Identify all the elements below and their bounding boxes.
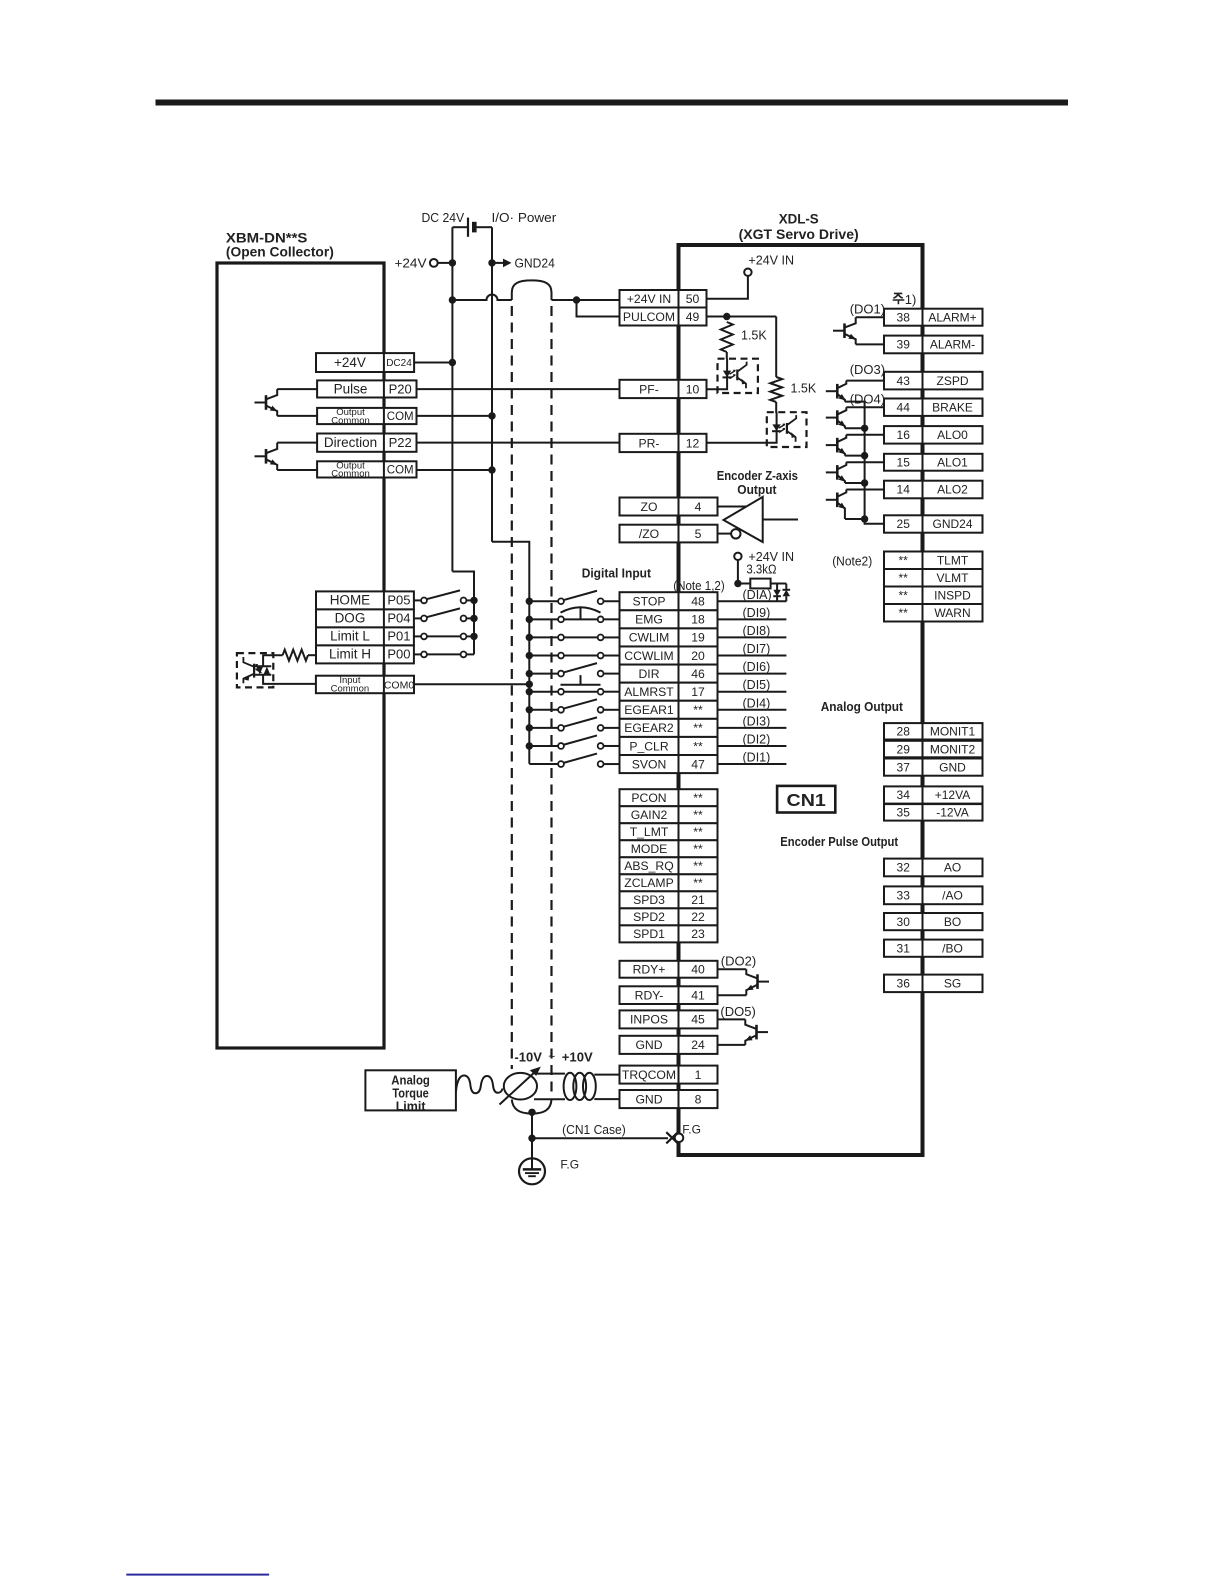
svg-text:-10V: -10V: [514, 1050, 542, 1065]
svg-text:SPD3: SPD3: [633, 893, 665, 907]
switch S1 input HOME: [414, 590, 474, 603]
terminal box Input Common / COM0: [316, 675, 414, 694]
svg-text:36: 36: [897, 977, 911, 991]
terminal box pin ** / TLMT: [884, 552, 983, 570]
svg-text:**: **: [899, 588, 909, 602]
wire resistor to Limit H: [308, 654, 316, 656]
svg-text:VLMT: VLMT: [936, 571, 969, 585]
node junction shield to FG: [528, 1109, 535, 1116]
svg-text:ALARM-: ALARM-: [930, 338, 975, 352]
node junction digital switch bus: [526, 598, 533, 605]
svg-text:3.3kΩ: 3.3kΩ: [746, 563, 776, 577]
svg-text:18: 18: [691, 613, 705, 627]
svg-text:(DI1): (DI1): [743, 751, 771, 765]
node junction +24V on battery left rail: [449, 259, 456, 266]
svg-text:INPOS: INPOS: [630, 1013, 668, 1027]
node junction emitter bus: [861, 479, 868, 486]
wire digital input stub (DI7): [718, 655, 787, 657]
svg-text:12: 12: [686, 436, 700, 450]
wire digital input stub (DIA): [718, 600, 787, 602]
svg-text:-12VA: -12VA: [936, 806, 968, 820]
svg-text:(DO3): (DO3): [850, 362, 885, 377]
svg-text:MONIT2: MONIT2: [930, 742, 976, 756]
svg-text:47: 47: [691, 757, 705, 771]
svg-text:**: **: [899, 571, 909, 585]
twisted pair loops: [564, 1073, 596, 1100]
svg-text:+24V IN: +24V IN: [627, 292, 671, 306]
svg-text:(DI5): (DI5): [743, 678, 771, 692]
svg-text:CCWLIM: CCWLIM: [624, 649, 673, 663]
svg-text:(DO2): (DO2): [721, 954, 756, 969]
transistor Q1 pulse output: [255, 389, 278, 416]
wire RDY- to DO2 emitter: [718, 994, 747, 996]
wire pulse transistor emitter to COM: [277, 415, 317, 417]
node junction digital switch bus: [526, 742, 533, 749]
node junction COM upper: [488, 412, 495, 419]
wire +24V IN to R4: [737, 560, 739, 584]
transistor Q2 direction output: [255, 443, 278, 470]
svg-text:SG: SG: [944, 977, 961, 991]
svg-text:37: 37: [897, 760, 911, 774]
wire direction P22 to PR-: [417, 442, 620, 444]
wire photocoupler to input common: [263, 675, 316, 684]
terminal box HOME / P05: [316, 591, 414, 609]
svg-text:COM0: COM0: [384, 679, 414, 691]
terminal box SPD3 / pin 21: [620, 891, 718, 908]
connector designator CN1: [777, 786, 835, 813]
svg-text:ALMRST: ALMRST: [624, 685, 674, 699]
terminal box EGEAR1 / pin **: [620, 701, 718, 719]
svg-text:P05: P05: [387, 593, 410, 608]
svg-text:1): 1): [905, 292, 917, 307]
wire digital input stub (DI6): [718, 673, 787, 675]
svg-text:WARN: WARN: [934, 606, 970, 620]
node junction at R4: [734, 580, 741, 587]
photocoupler PC2 sign input: [707, 412, 807, 447]
wire line driver output: [763, 519, 798, 521]
svg-text:17: 17: [691, 685, 705, 699]
svg-text:Analog Output: Analog Output: [821, 699, 904, 714]
terminal box SPD2 / pin 22: [620, 908, 718, 925]
node junction digital switch bus: [526, 670, 533, 677]
node junction digital switch bus: [526, 616, 533, 623]
switch S6 digital input EMG: [529, 607, 619, 622]
svg-text:**: **: [693, 703, 703, 717]
svg-text:31: 31: [897, 941, 911, 955]
svg-text:HOME: HOME: [330, 593, 371, 608]
svg-text:Direction: Direction: [324, 435, 377, 450]
photocoupler PC1 pulse input: [707, 359, 758, 393]
switch S11 digital input EGEAR1: [529, 699, 619, 712]
terminal box pin 30 / BO: [884, 913, 983, 930]
svg-text:P22: P22: [389, 435, 412, 450]
svg-text:SPD1: SPD1: [633, 927, 665, 941]
wire R2 to photocoupler PC2: [775, 402, 777, 413]
terminal box pin 39 / ALARM-: [884, 336, 983, 354]
wire collector transistor Q4 DO3 zero-speed: [846, 380, 884, 382]
svg-text:**: **: [693, 739, 703, 753]
svg-text:29: 29: [897, 742, 911, 756]
terminal box GND / pin 24: [620, 1036, 718, 1054]
svg-text:(DI6): (DI6): [743, 660, 771, 674]
earth ground symbol F.G: [519, 1158, 545, 1184]
terminal box PF- / pin 10: [620, 380, 707, 398]
terminal box pin 37 / GND: [884, 759, 983, 776]
svg-text:BO: BO: [944, 915, 961, 929]
svg-text:(DI8): (DI8): [743, 624, 771, 638]
terminal box CWLIM / pin 19: [620, 628, 718, 646]
wire twisted pair to GND 8: [594, 1098, 619, 1100]
wire direction transistor collector: [277, 442, 317, 444]
terminal box INPOS / pin 45: [620, 1010, 718, 1028]
svg-text:46: 46: [691, 667, 705, 681]
wire R1 to photocoupler PC1: [726, 352, 728, 359]
svg-text:SVON: SVON: [632, 757, 667, 771]
wire DC24 to +24V rail: [414, 362, 452, 364]
node junction input switch bus: [470, 597, 477, 604]
terminal +24V IN top: [707, 254, 795, 299]
terminal box pin 29 / MONIT2: [884, 741, 983, 758]
wire shield to frame ground: [531, 1112, 533, 1157]
inversion bubble on /ZO: [731, 529, 740, 538]
wire COM lower to GND24 rail: [417, 469, 493, 471]
resistor R3 input limiter: [283, 650, 308, 661]
terminal box pin ** / VLMT: [884, 569, 983, 587]
terminal box RDY+ / pin 40: [620, 961, 718, 978]
terminal box pin 15 / ALO1: [884, 454, 983, 471]
terminal box pin 28 / MONIT1: [884, 723, 983, 739]
terminal box +24V / DC24: [316, 353, 414, 372]
svg-text:EGEAR1: EGEAR1: [624, 703, 674, 717]
terminal box DIR / pin 46: [620, 665, 718, 683]
svg-text:P01: P01: [387, 629, 410, 644]
switch S5 digital input STOP: [529, 591, 619, 604]
node junction on +24V rail: [449, 296, 456, 303]
node junction FG tee: [528, 1135, 535, 1142]
ground arrow GND24: [492, 256, 555, 271]
node junction input switch bus: [470, 615, 477, 622]
svg-text:Encoder Pulse Output: Encoder Pulse Output: [780, 834, 898, 849]
wire twisted pair to TRQCOM: [594, 1074, 619, 1076]
wire output common emitter bus: [865, 402, 884, 524]
svg-text:**: **: [693, 825, 703, 839]
svg-text:ZO: ZO: [641, 500, 658, 514]
svg-text:49: 49: [686, 310, 700, 324]
svg-text:GAIN2: GAIN2: [631, 808, 668, 822]
terminal box pin 25 / GND24: [884, 515, 983, 532]
wire ALARM+ to DO1 collector: [856, 316, 884, 318]
wire ZO to line driver: [718, 506, 747, 508]
wire ALARM- to DO1 emitter: [856, 343, 884, 345]
svg-text:**: **: [693, 842, 703, 856]
switch S7 digital input CWLIM: [529, 635, 619, 641]
node junction +24V IN branch: [573, 296, 580, 303]
svg-text:+24V IN: +24V IN: [748, 254, 794, 268]
wire emitter transistor Q4 DO3 zero-speed to common bus: [845, 401, 865, 403]
svg-text:15: 15: [897, 455, 911, 469]
cable shield bottom arc: [512, 1100, 552, 1114]
node junction COM lower: [488, 466, 495, 473]
svg-text:ZCLAMP: ZCLAMP: [624, 876, 673, 890]
svg-text:41: 41: [691, 988, 705, 1002]
svg-text:Output: Output: [737, 482, 777, 497]
svg-text:ABS_RQ: ABS_RQ: [624, 859, 673, 873]
transistor Q4 DO3 zero-speed: [826, 381, 847, 402]
svg-text:F.G: F.G: [560, 1158, 579, 1172]
svg-text:32: 32: [897, 861, 911, 875]
transistor Q8 DO2 ready output: [746, 969, 769, 995]
svg-text:(DO4): (DO4): [850, 392, 885, 407]
wire RDY+ to DO2 collector: [718, 968, 747, 970]
wire +24V feed to drive: [552, 299, 620, 301]
PLC block XBM-DN**S outline: [217, 263, 384, 1048]
resistor R2 1.5K: [770, 377, 817, 402]
svg-text:33: 33: [897, 889, 911, 903]
terminal box pin 31 / /BO: [884, 940, 983, 957]
wire emitter transistor Q5 DO4 brake to common bus: [845, 427, 865, 429]
terminal box ABS_RQ / pin **: [620, 857, 718, 874]
node junction PULCOM branch: [723, 313, 730, 320]
cable shield arch: [512, 280, 552, 300]
node junction digital switch bus: [526, 706, 533, 713]
label Encoder Z-axis Output: [717, 468, 798, 497]
svg-text:MODE: MODE: [631, 842, 668, 856]
switch S13 digital input P_CLR: [529, 735, 619, 748]
svg-text:I/O· Power: I/O· Power: [492, 210, 557, 225]
svg-text:MONIT1: MONIT1: [930, 725, 976, 739]
terminal box pin 36 / SG: [884, 975, 983, 993]
terminal box EMG / pin 18: [620, 610, 718, 628]
label note ju1) korean: [893, 292, 917, 307]
wire pot return to twisted pair (bottom): [534, 1098, 565, 1100]
terminal box +24V IN / pin 50: [620, 290, 707, 308]
svg-text:30: 30: [897, 915, 911, 929]
terminal box pin 35 / -12VA: [884, 804, 983, 821]
wire +24V rail jog to input switch bus: [452, 572, 474, 655]
terminal box CCWLIM / pin 20: [620, 646, 718, 664]
svg-text:Limit H: Limit H: [329, 647, 371, 662]
node junction COM0 on switch bus: [526, 681, 533, 688]
svg-text:DC 24V: DC 24V: [422, 210, 465, 225]
svg-text:~: ~: [548, 1050, 555, 1064]
svg-text:**: **: [693, 876, 703, 890]
svg-text:40: 40: [691, 963, 705, 977]
svg-text:P_CLR: P_CLR: [629, 739, 668, 753]
wire GND24 rail vertical: [491, 227, 493, 542]
svg-text:+10V: +10V: [562, 1050, 593, 1065]
svg-text:RDY-: RDY-: [635, 988, 664, 1002]
terminal box ZCLAMP / pin **: [620, 874, 718, 891]
svg-text:RDY+: RDY+: [633, 963, 666, 977]
wire collector transistor Q8b ALO2 driver: [846, 489, 884, 491]
svg-text:PR-: PR-: [639, 436, 660, 450]
diode D2 clamp: [783, 584, 791, 602]
label -10V ~ +10V: [514, 1050, 593, 1065]
svg-text:(DO5): (DO5): [720, 1004, 755, 1019]
svg-text:38: 38: [897, 310, 911, 324]
top rule: [156, 100, 1069, 106]
svg-text:+24V: +24V: [395, 256, 427, 271]
terminal box PCON / pin **: [620, 789, 718, 806]
node junction digital switch bus: [526, 652, 533, 659]
svg-text:43: 43: [897, 374, 911, 388]
svg-text:10: 10: [686, 382, 700, 396]
svg-text:EMG: EMG: [635, 613, 663, 627]
terminal box Output Common / COM (lower): [317, 460, 416, 479]
terminal box T_LMT / pin **: [620, 823, 718, 840]
svg-text:Limit L: Limit L: [330, 629, 370, 644]
node junction GND24 on battery right rail: [488, 259, 495, 266]
svg-text:19: 19: [691, 631, 705, 645]
terminal +24V: [395, 256, 453, 271]
wire digital input stub (DI8): [718, 636, 787, 638]
wire resistor into photocoupler: [263, 655, 283, 665]
svg-text:PF-: PF-: [639, 382, 659, 396]
svg-text:CN1: CN1: [787, 790, 827, 810]
svg-text:TRQCOM: TRQCOM: [622, 1068, 676, 1082]
svg-text:P00: P00: [387, 647, 410, 662]
svg-text:(DI7): (DI7): [743, 642, 771, 656]
svg-text:**: **: [899, 606, 909, 620]
terminal box SPD1 / pin 23: [620, 925, 718, 942]
transistor Q6 ALO0 driver: [826, 435, 847, 456]
node junction emitter bus: [861, 515, 868, 522]
terminal box PULCOM / pin 49: [620, 308, 707, 326]
terminal box RDY- / pin 41: [620, 986, 718, 1004]
wire direction transistor emitter to COM: [277, 469, 317, 471]
svg-text:5: 5: [695, 527, 702, 541]
terminal box Direction / P22: [317, 434, 416, 452]
svg-text:(DI4): (DI4): [743, 696, 771, 710]
terminal box MODE / pin **: [620, 840, 718, 857]
svg-text:(DIA): (DIA): [743, 588, 772, 602]
terminal box SVON / pin 47: [620, 755, 718, 773]
wire GND24 to DO5 emitter: [718, 1044, 746, 1046]
svg-text:/BO: /BO: [942, 941, 963, 955]
svg-text:GND24: GND24: [515, 256, 555, 271]
terminal box Limit L / P01: [316, 627, 414, 645]
terminal box pin 34 / +12VA: [884, 786, 983, 803]
transistor Q3 DO1 alarm output: [833, 317, 856, 344]
svg-text:**: **: [693, 859, 703, 873]
svg-text:ALARM+: ALARM+: [928, 310, 976, 324]
photocoupler PC3 input isolator: [237, 653, 273, 687]
svg-text:(DI2): (DI2): [743, 732, 771, 746]
wire digital input stub (DI4): [718, 709, 787, 711]
svg-text:GND24: GND24: [932, 517, 972, 531]
switch S14 digital input SVON: [529, 754, 619, 767]
svg-text:AO: AO: [944, 861, 961, 875]
terminal box GAIN2 / pin **: [620, 806, 718, 823]
svg-text:28: 28: [897, 725, 911, 739]
svg-text:22: 22: [691, 910, 705, 924]
connector shell termination X: [666, 1132, 683, 1143]
wire INPOS to DO5 collector: [718, 1018, 746, 1020]
svg-text:+24V: +24V: [334, 355, 366, 370]
resistor R1 1.5K: [721, 322, 768, 352]
transistor Q8b ALO2 driver: [826, 490, 847, 520]
svg-text:**: **: [899, 553, 909, 567]
shielded cable dashed run (right): [550, 306, 552, 1098]
svg-text:Encoder Z-axis: Encoder Z-axis: [717, 468, 798, 483]
svg-text:(Note2): (Note2): [832, 555, 872, 569]
svg-text:P04: P04: [387, 611, 410, 626]
transistor Q9 DO5 in-position output: [745, 1019, 768, 1045]
node junction digital switch bus: [526, 688, 533, 695]
terminal box pin 38 / ALARM+: [884, 309, 983, 326]
node junction emitter bus: [861, 425, 868, 432]
terminal box pin ** / INSPD: [884, 587, 983, 605]
svg-text:(Note 1,2): (Note 1,2): [673, 579, 724, 593]
terminal box PR- / pin 12: [620, 434, 707, 452]
terminal box ALMRST / pin 17: [620, 683, 718, 701]
svg-text:(DI9): (DI9): [743, 606, 771, 620]
wire +24V rail vertical: [451, 227, 453, 571]
terminal box Limit H / P00: [316, 645, 414, 663]
terminal box pin 33 / /AO: [884, 886, 983, 904]
svg-text:Common: Common: [331, 683, 370, 694]
wire pot wiper to twisted pair (top): [536, 1073, 565, 1075]
node junction DC24 tap: [449, 359, 456, 366]
svg-text:EGEAR2: EGEAR2: [624, 721, 674, 735]
switch S3 input Limit L: [414, 634, 474, 640]
svg-text:1.5K: 1.5K: [791, 382, 817, 396]
node junction digital switch bus: [526, 724, 533, 731]
svg-text:45: 45: [691, 1013, 705, 1027]
svg-text:SPD2: SPD2: [633, 910, 665, 924]
wire emitter transistor Q7 ALO1 driver to common bus: [845, 482, 865, 484]
svg-text:CWLIM: CWLIM: [629, 631, 670, 645]
svg-text:PCON: PCON: [631, 791, 666, 805]
wire digital input stub (DI9): [718, 618, 787, 620]
svg-text:Common: Common: [331, 415, 370, 426]
wire digital input stub (DI2): [718, 745, 787, 747]
svg-text:PULCOM: PULCOM: [623, 310, 675, 324]
switch S10 digital input ALMRST: [529, 689, 619, 695]
wire input common COM0 to switch bus: [414, 683, 529, 685]
node junction input switch bus: [470, 633, 477, 640]
terminal box STOP / pin 48: [620, 592, 718, 610]
svg-text:21: 21: [691, 893, 705, 907]
svg-text:Common: Common: [331, 469, 370, 480]
wire digital input stub (DI1): [718, 763, 787, 765]
wire collector transistor Q5 DO4 brake: [846, 406, 884, 408]
terminal box pin 43 / ZSPD: [884, 372, 983, 390]
svg-text:DOG: DOG: [335, 611, 366, 626]
svg-text:XDL-S: XDL-S: [779, 210, 819, 226]
svg-text:DIR: DIR: [639, 667, 660, 681]
svg-text:GND: GND: [635, 1092, 662, 1106]
svg-text:4: 4: [695, 500, 702, 514]
svg-text:48: 48: [691, 595, 705, 609]
terminal box GND / pin 8: [620, 1090, 718, 1108]
wire pulse transistor collector: [277, 388, 317, 390]
drive block XDL-S outline: [679, 245, 923, 1155]
potentiometer RV1 torque command: [500, 1067, 541, 1105]
svg-text:34: 34: [897, 788, 911, 802]
svg-text:25: 25: [897, 517, 911, 531]
svg-text:39: 39: [897, 338, 911, 352]
svg-text:COM: COM: [387, 411, 414, 423]
terminal box pin 16 / ALO0: [884, 426, 983, 444]
wire branch to PULCOM: [577, 300, 620, 317]
wire /ZO to line driver bubble: [718, 533, 732, 535]
svg-text:ALO0: ALO0: [937, 428, 968, 442]
wire PULCOM to limit resistors: [707, 316, 777, 318]
svg-text:INSPD: INSPD: [934, 588, 971, 602]
svg-text:T_LMT: T_LMT: [630, 825, 669, 839]
resistor R4 3.3k (box symbol): [738, 579, 786, 589]
